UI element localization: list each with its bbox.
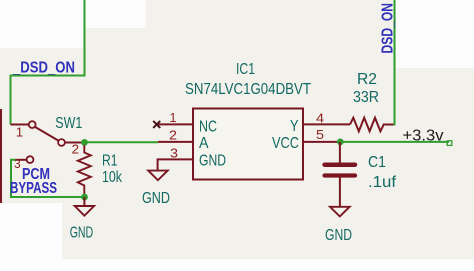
wire horizontal _DSD_ON bbox=[11, 75, 86, 77]
wire vertical from R2 up to DSD_ON bbox=[394, 0, 396, 126]
GND text below R1 bbox=[70, 225, 94, 242]
IC1 pin name NC bbox=[199, 119, 217, 136]
resistor R1 bbox=[78, 145, 91, 197]
wire from SW1 pin3 to PCM BYPASS label bbox=[10, 159, 85, 197]
junction at R1 bottom bbox=[81, 194, 88, 201]
partial wire at left image edge bbox=[0, 109, 2, 203]
C1 value .1uf bbox=[368, 174, 397, 191]
wire VCC to +3.3v bbox=[340, 141, 449, 143]
svg-text:3: 3 bbox=[170, 147, 178, 161]
IC1 pin number 4 bbox=[316, 112, 324, 126]
wire vertical down to SW1 pin 1 bbox=[10, 75, 12, 125]
unconnected wire end square bbox=[447, 141, 452, 146]
svg-text:1: 1 bbox=[170, 111, 177, 125]
white area top-left outside sheet bbox=[0, 0, 83, 48]
switch SW1 bbox=[11, 121, 86, 163]
white area bottom-left outside sheet bbox=[0, 203, 62, 271]
IC1 reference bbox=[236, 61, 255, 78]
R2 value 33R bbox=[353, 89, 379, 106]
svg-text:+3.3v: +3.3v bbox=[403, 128, 444, 145]
svg-text:NC: NC bbox=[199, 119, 217, 136]
ground below IC1 pin 3 bbox=[148, 159, 168, 180]
wire vertical from top to _DSD_ON corner bbox=[84, 0, 86, 76]
label DSD_ON vertical bbox=[380, 3, 397, 54]
IC1 pin 1 NC bbox=[158, 123, 193, 125]
ground below R1 bbox=[75, 197, 94, 216]
svg-text:IC1: IC1 bbox=[236, 61, 255, 78]
IC1 pin name VCC bbox=[272, 135, 299, 152]
IC1 pin number 2 bbox=[169, 129, 177, 143]
ground below C1 bbox=[330, 207, 350, 217]
IC1 pin name Y bbox=[290, 118, 299, 135]
label PCM BYPASS bbox=[10, 166, 57, 197]
IC1 pin name A bbox=[199, 135, 209, 152]
svg-text:BYPASS: BYPASS bbox=[10, 180, 57, 197]
svg-text:33R: 33R bbox=[353, 89, 379, 106]
C1 reference bbox=[368, 154, 386, 171]
svg-text:1: 1 bbox=[16, 125, 23, 139]
svg-text:GND: GND bbox=[142, 190, 170, 207]
svg-text:GND: GND bbox=[325, 227, 352, 244]
white area top-middle outside sheet bbox=[86, 0, 146, 28]
svg-text:.1uf: .1uf bbox=[368, 174, 397, 191]
IC1 pin 3 GND bbox=[158, 158, 193, 160]
svg-text:GND: GND bbox=[70, 225, 94, 242]
IC1 value SN74LVC1G04DBVT bbox=[185, 81, 311, 98]
svg-text:DSD_ON: DSD_ON bbox=[380, 3, 397, 54]
svg-text:SN74LVC1G04DBVT: SN74LVC1G04DBVT bbox=[185, 81, 311, 98]
junction at SW1 pin2 / R1 top bbox=[81, 139, 88, 146]
svg-text:R1: R1 bbox=[102, 153, 118, 170]
svg-text:VCC: VCC bbox=[272, 135, 299, 152]
label _DSD_ON bbox=[12, 60, 75, 77]
svg-text:R2: R2 bbox=[357, 71, 377, 88]
label +3.3v bbox=[403, 128, 444, 145]
IC1 pin number 3 bbox=[170, 147, 178, 161]
no-connect cross on pin 1 bbox=[153, 121, 160, 128]
svg-text:SW1: SW1 bbox=[55, 115, 82, 132]
wire SW1 pin2 to IC1 pin A bbox=[85, 141, 158, 143]
IC1 pin 5 VCC bbox=[303, 141, 340, 143]
SW1 pin number 3 bbox=[14, 157, 21, 171]
SW1 pin number 1 bbox=[16, 125, 23, 139]
GND text below C1 bbox=[325, 227, 352, 244]
capacitor C1 bbox=[325, 142, 355, 207]
SW1 reference bbox=[55, 115, 82, 132]
IC1 pin 4 Y bbox=[303, 123, 350, 125]
svg-text:10k: 10k bbox=[102, 169, 123, 186]
svg-text:2: 2 bbox=[72, 142, 79, 156]
SW1 pin number 2 bbox=[72, 142, 79, 156]
white area top-right outside sheet bbox=[396, 0, 474, 68]
IC1 pin number 1 bbox=[170, 111, 177, 125]
svg-text:Y: Y bbox=[290, 118, 299, 135]
R1 reference bbox=[102, 153, 118, 170]
resistor R2 bbox=[350, 118, 395, 132]
svg-text:4: 4 bbox=[316, 112, 324, 126]
IC1 pin name GND bbox=[199, 153, 226, 170]
R1 value 10k bbox=[102, 169, 123, 186]
svg-text:C1: C1 bbox=[368, 154, 386, 171]
IC1 pin 2 A bbox=[158, 141, 193, 143]
IC1 body bbox=[193, 109, 303, 180]
svg-text:2: 2 bbox=[169, 129, 177, 143]
GND text below IC1 pin 3 bbox=[142, 190, 170, 207]
svg-text:A: A bbox=[199, 135, 209, 152]
IC1 pin number 5 bbox=[316, 128, 324, 142]
svg-text:_DSD_ON: _DSD_ON bbox=[12, 60, 75, 77]
junction at VCC / C1 bbox=[337, 139, 344, 146]
white strip bottom outside sheet bbox=[0, 259, 474, 271]
R2 reference bbox=[357, 71, 377, 88]
svg-text:GND: GND bbox=[199, 153, 226, 170]
svg-text:5: 5 bbox=[316, 128, 324, 142]
